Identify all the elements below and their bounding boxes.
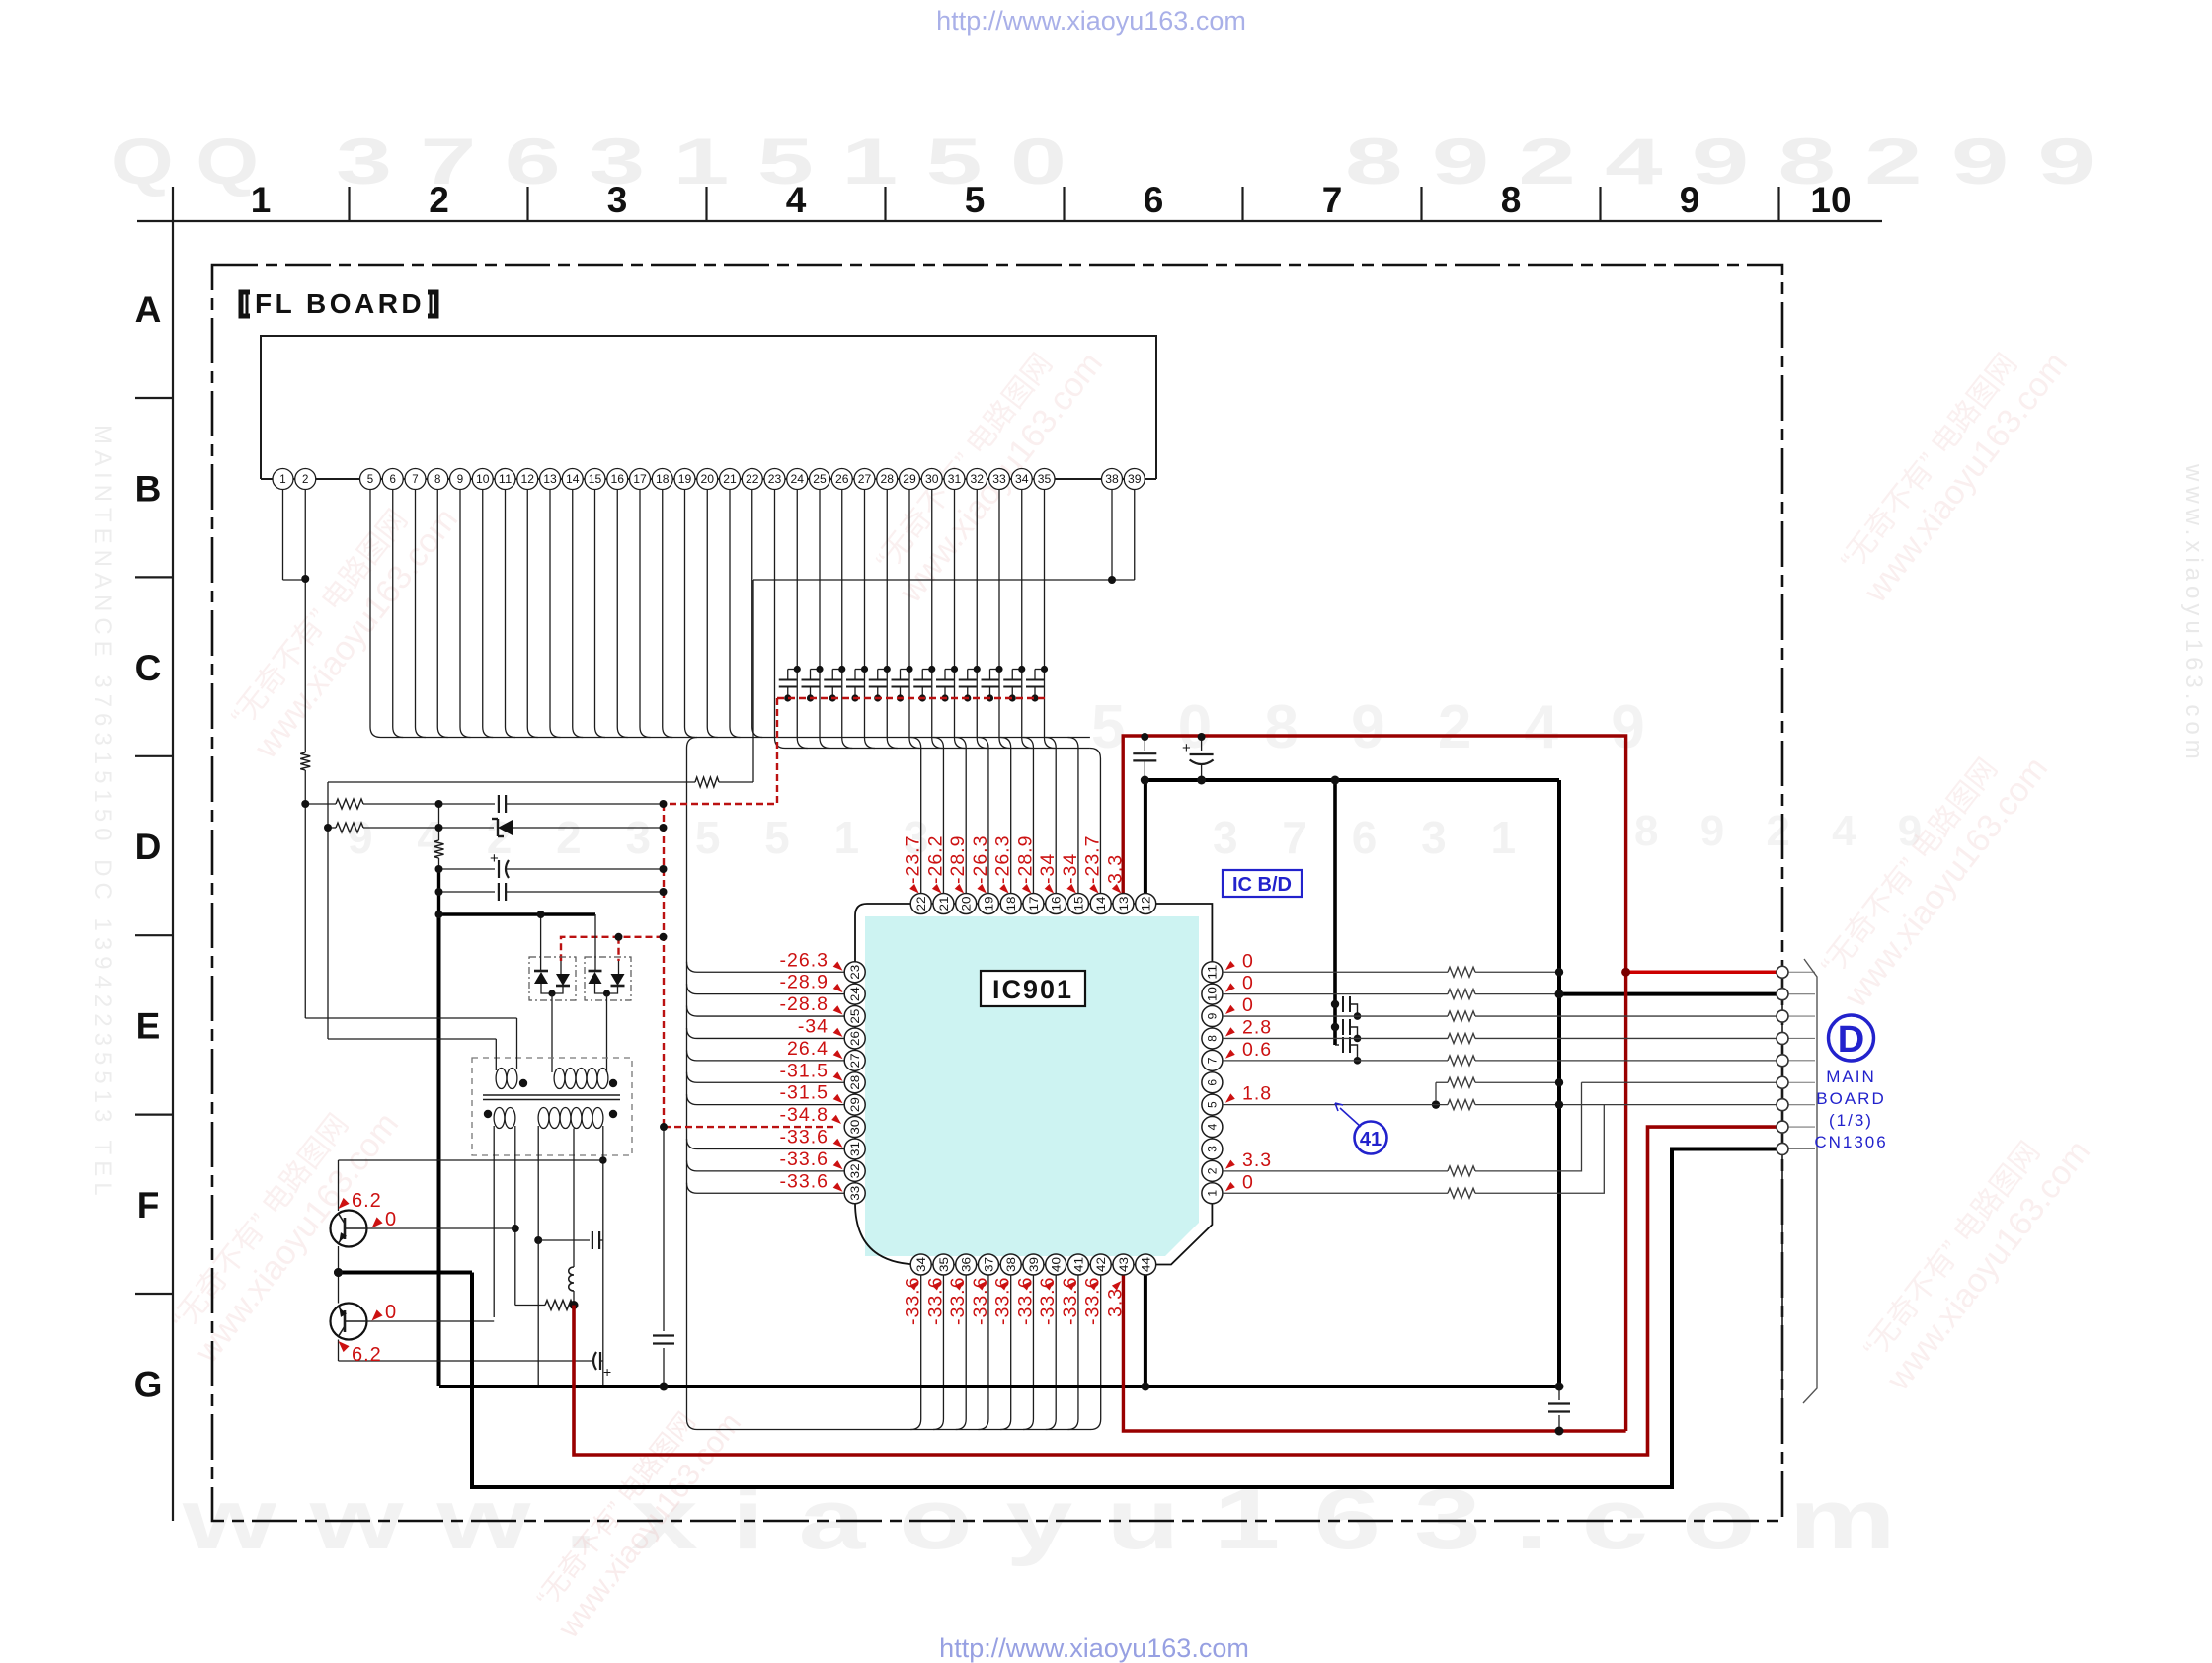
svg-text:7: 7 <box>412 474 418 486</box>
svg-text:3: 3 <box>607 180 628 220</box>
red dashed net <box>777 697 1049 699</box>
svg-text:+: + <box>1182 740 1191 756</box>
svg-text:A: A <box>135 289 162 330</box>
polar capacitor supply decoupling <box>1201 737 1203 751</box>
diode pair package D1 <box>529 957 576 1000</box>
svg-text:7: 7 <box>1322 180 1343 220</box>
svg-text:39: 39 <box>1027 1257 1041 1272</box>
column ruler <box>137 220 1882 222</box>
IC901 top pins 22-12 <box>1136 894 1156 914</box>
FL pin 23 <box>764 469 785 490</box>
capacitor 903 rail <box>439 891 496 893</box>
svg-text:D: D <box>1838 1019 1864 1061</box>
svg-text:22: 22 <box>746 474 759 486</box>
capacitor C2 segment filter <box>810 670 812 680</box>
svg-text:-26.2: -26.2 <box>924 835 946 884</box>
svg-text:38: 38 <box>1105 474 1119 486</box>
harness left trunk <box>687 738 698 1430</box>
svg-text:CN1306: CN1306 <box>1814 1133 1887 1151</box>
svg-text:1: 1 <box>1206 1190 1220 1197</box>
FL pin 31 <box>944 469 965 490</box>
svg-text:26.4: 26.4 <box>787 1038 829 1060</box>
svg-text:37: 37 <box>982 1257 995 1272</box>
svg-text:10: 10 <box>1206 987 1220 1001</box>
svg-text:1: 1 <box>279 474 285 486</box>
svg-text:-23.7: -23.7 <box>1082 835 1104 884</box>
capacitor C1 segment filter <box>787 670 789 680</box>
svg-text:35: 35 <box>937 1257 951 1272</box>
harness bus upper <box>381 737 1090 739</box>
svg-text:C: C <box>135 648 162 688</box>
capacitor C11 segment filter <box>1011 670 1013 680</box>
svg-text:-34: -34 <box>1060 853 1081 884</box>
callout 41 <box>1355 1122 1387 1154</box>
svg-text:6.2: 6.2 <box>352 1190 382 1212</box>
svg-text:9: 9 <box>1680 180 1700 220</box>
svg-text:0: 0 <box>385 1209 396 1230</box>
svg-text:MAINTENANCE 376315150 DC 13942: MAINTENANCE 376315150 DC 13942235513 TEL <box>89 425 116 1202</box>
svg-text:8: 8 <box>1501 180 1522 220</box>
svg-text:http://www.xiaoyu163.com: http://www.xiaoyu163.com <box>939 1633 1249 1663</box>
svg-text:5: 5 <box>965 180 986 220</box>
svg-text:29: 29 <box>903 474 916 486</box>
svg-text:38: 38 <box>1004 1257 1018 1272</box>
filament supply red routing <box>574 1127 1782 1455</box>
svg-text:-34.8: -34.8 <box>780 1104 829 1126</box>
FL pin 26 <box>831 469 852 490</box>
svg-text:33: 33 <box>848 1185 862 1200</box>
svg-text:21: 21 <box>723 474 737 486</box>
svg-text:-26.3: -26.3 <box>780 949 829 971</box>
FL pin 21 <box>720 469 741 490</box>
FL pin 17 <box>630 469 651 490</box>
resistor on pin2 rail <box>300 752 310 770</box>
FL pin 14 <box>562 469 583 490</box>
svg-text:35: 35 <box>1038 474 1052 486</box>
svg-text:4: 4 <box>786 180 807 220</box>
svg-text:15: 15 <box>589 474 602 486</box>
svg-text:FL BOARD: FL BOARD <box>255 288 425 319</box>
svg-text:41: 41 <box>1071 1257 1085 1272</box>
polar capacitor 880 rail <box>439 868 496 870</box>
svg-text:-28.9: -28.9 <box>1014 835 1036 884</box>
svg-text:17: 17 <box>1027 896 1041 911</box>
svg-text:20: 20 <box>960 896 974 911</box>
svg-text:34: 34 <box>1015 474 1029 486</box>
connector CN1306 <box>1781 961 1783 1410</box>
svg-text:IC B/D: IC B/D <box>1232 874 1292 896</box>
svg-text:Q Q: Q Q <box>111 124 259 198</box>
svg-text:26: 26 <box>848 1031 862 1046</box>
svg-text:+: + <box>490 850 499 867</box>
svg-text:8: 8 <box>434 474 440 486</box>
capacitor C8 segment filter <box>944 670 946 680</box>
svg-text:-28.9: -28.9 <box>947 835 969 884</box>
svg-text:32: 32 <box>848 1163 862 1178</box>
FL BOARD title <box>241 292 250 316</box>
svg-text:24: 24 <box>848 987 862 1001</box>
svg-text:3.3: 3.3 <box>1242 1149 1272 1171</box>
FL display module outline <box>261 336 1156 479</box>
svg-text:3.3: 3.3 <box>1104 1288 1126 1317</box>
svg-text:15: 15 <box>1071 896 1085 911</box>
capacitor on 814 rail <box>498 795 500 813</box>
svg-text:27: 27 <box>848 1053 862 1068</box>
zener diode <box>497 819 499 836</box>
svg-text:-26.3: -26.3 <box>992 835 1014 884</box>
svg-text:28: 28 <box>881 474 895 486</box>
wire + resistor filament feed <box>328 781 695 783</box>
FL pin 2 <box>295 469 316 490</box>
svg-text:8 9 2 4 9: 8 9 2 4 9 <box>1634 807 1936 855</box>
node D to MAIN BOARD <box>1829 1015 1874 1061</box>
wires to IC901 top pins <box>1067 738 1078 894</box>
svg-text:0: 0 <box>385 1302 396 1323</box>
svg-text:32: 32 <box>971 474 985 486</box>
svg-text:0.6: 0.6 <box>1242 1039 1272 1061</box>
svg-text:16: 16 <box>611 474 625 486</box>
svg-text:5: 5 <box>1206 1101 1220 1108</box>
transistor Q2 <box>331 1304 367 1340</box>
inductor L1 <box>569 1267 574 1291</box>
FL pin 19 <box>674 469 695 490</box>
svg-text:23: 23 <box>768 474 782 486</box>
FL pin 35 <box>1034 469 1055 490</box>
IC901 bottom pins 34-44 <box>910 1254 931 1275</box>
svg-text:-34: -34 <box>798 1015 829 1037</box>
FL pin 30 <box>921 469 942 490</box>
FL pin 13 <box>540 469 561 490</box>
svg-text:17: 17 <box>633 474 647 486</box>
svg-text:5: 5 <box>367 474 373 486</box>
FL pin 38 <box>1102 469 1123 490</box>
FL pin 1 <box>273 469 293 490</box>
capacitor C4 segment filter <box>854 670 856 680</box>
svg-text:-33.6: -33.6 <box>780 1148 829 1170</box>
svg-text:10: 10 <box>1810 180 1851 220</box>
svg-text:E: E <box>136 1006 161 1047</box>
wires FL pins 23-35 to harness <box>775 490 786 749</box>
wire FL pin 2 rail <box>304 490 306 753</box>
svg-text:18: 18 <box>656 474 670 486</box>
svg-text:http://www.xiaoyu163.com: http://www.xiaoyu163.com <box>936 6 1246 36</box>
svg-text:25: 25 <box>813 474 827 486</box>
svg-text:-33.6: -33.6 <box>780 1126 829 1148</box>
svg-text:23: 23 <box>848 964 862 979</box>
svg-text:40: 40 <box>1050 1257 1064 1272</box>
svg-text:0: 0 <box>1242 950 1254 972</box>
svg-text:IC901: IC901 <box>992 975 1073 1004</box>
svg-text:2: 2 <box>1206 1167 1220 1174</box>
FL pin 18 <box>652 469 672 490</box>
FL pin 9 <box>450 469 471 490</box>
svg-text:3 7 6 3 1: 3 7 6 3 1 <box>1213 812 1532 863</box>
FL pin 6 <box>382 469 403 490</box>
svg-text:24: 24 <box>791 474 805 486</box>
svg-text:26: 26 <box>835 474 849 486</box>
svg-text:6: 6 <box>390 474 396 486</box>
svg-text:12: 12 <box>1140 896 1153 911</box>
svg-text:29: 29 <box>848 1097 862 1112</box>
wire FL pin 1 <box>282 490 284 581</box>
svg-text:44: 44 <box>1140 1257 1153 1272</box>
svg-text:7: 7 <box>1206 1057 1220 1064</box>
svg-text:0: 0 <box>1242 1171 1254 1193</box>
svg-text:-31.5: -31.5 <box>780 1082 829 1104</box>
svg-text:4: 4 <box>1206 1123 1220 1130</box>
svg-text:-34: -34 <box>1037 853 1059 884</box>
FL pin 15 <box>585 469 605 490</box>
FL pin 29 <box>900 469 920 490</box>
svg-text:www.xiaoyu163.com: www.xiaoyu163.com <box>2180 463 2207 764</box>
svg-text:9: 9 <box>1206 1012 1220 1019</box>
IC901 right pins 11-1 <box>1202 1183 1223 1204</box>
FL pin 5 <box>360 469 381 490</box>
svg-text:+: + <box>603 1364 611 1380</box>
svg-text:3.3: 3.3 <box>1104 854 1126 884</box>
capacitor C12 segment filter <box>1034 670 1036 680</box>
svg-text:-28.9: -28.9 <box>780 972 829 993</box>
FL pin 28 <box>877 469 898 490</box>
svg-text:11: 11 <box>1206 964 1220 979</box>
svg-text:1.8: 1.8 <box>1242 1083 1272 1105</box>
resistor vertical divider <box>434 840 444 858</box>
svg-text:21: 21 <box>937 896 951 911</box>
IC B/D label <box>1223 870 1302 897</box>
svg-text:-33.6: -33.6 <box>780 1170 829 1192</box>
capacitor C5 segment filter <box>877 670 879 680</box>
svg-text:6: 6 <box>1206 1079 1220 1086</box>
svg-text:-28.8: -28.8 <box>780 993 829 1015</box>
FL pin 25 <box>810 469 830 490</box>
svg-text:5 0 8 9 2 4 9: 5 0 8 9 2 4 9 <box>1091 693 1663 761</box>
svg-text:6.2: 6.2 <box>352 1344 382 1366</box>
op-amp U1: IC901 body <box>865 916 1199 1256</box>
svg-text:22: 22 <box>914 896 928 911</box>
svg-text:14: 14 <box>566 474 580 486</box>
svg-text:41: 41 <box>1360 1129 1382 1150</box>
FL pin 8 <box>428 469 448 490</box>
transistor Q1 <box>331 1211 367 1247</box>
svg-text:6: 6 <box>1144 180 1164 220</box>
capacitor across secondary <box>538 1239 590 1241</box>
svg-text:0: 0 <box>1242 973 1254 994</box>
junction dots <box>301 575 309 583</box>
FL pin 32 <box>967 469 987 490</box>
svg-text:0: 0 <box>1242 994 1254 1016</box>
FL pin 24 <box>787 469 808 490</box>
resistor at inductor <box>545 1301 573 1310</box>
svg-text:G: G <box>134 1364 163 1404</box>
FL pin 12 <box>517 469 538 490</box>
svg-text:(1/3): (1/3) <box>1829 1111 1873 1130</box>
FL pin 39 <box>1124 469 1145 490</box>
svg-text:8: 8 <box>1206 1035 1220 1042</box>
wires FL pins 5-22 to harness <box>370 490 381 738</box>
svg-text:-23.7: -23.7 <box>903 835 924 884</box>
capacitor C3 segment filter <box>831 670 833 680</box>
capacitor ladder to pins 9/8/7 <box>1335 1003 1339 1005</box>
red arrow to pin 30 <box>831 1115 841 1124</box>
svg-text:28: 28 <box>848 1074 862 1089</box>
svg-text:2: 2 <box>302 474 308 486</box>
svg-text:10: 10 <box>476 474 490 486</box>
svg-text:30: 30 <box>848 1119 862 1134</box>
svg-text:D: D <box>135 827 162 867</box>
capacitor C7 segment filter <box>921 670 923 680</box>
harness bus bottom <box>697 1429 1091 1431</box>
3.3V red power routing <box>1123 736 1625 1431</box>
FL pin 27 <box>854 469 875 490</box>
resistor on zener rail <box>328 827 336 829</box>
svg-text:-31.5: -31.5 <box>780 1060 829 1081</box>
svg-text:31: 31 <box>848 1142 862 1156</box>
svg-text:34: 34 <box>914 1257 928 1272</box>
diode pair package D2 <box>585 957 631 1000</box>
FL pin 16 <box>607 469 628 490</box>
svg-text:11: 11 <box>499 474 513 486</box>
svg-text:9: 9 <box>457 474 463 486</box>
ground bus wiring <box>339 1271 472 1275</box>
svg-text:25: 25 <box>848 1008 862 1023</box>
svg-text:B: B <box>135 468 162 509</box>
svg-text:2.8: 2.8 <box>1242 1016 1272 1038</box>
svg-text:27: 27 <box>858 474 872 486</box>
transformer T901 <box>472 1058 632 1155</box>
FL pin 7 <box>405 469 426 490</box>
svg-text:20: 20 <box>701 474 715 486</box>
FL pin 34 <box>1011 469 1032 490</box>
svg-text:14: 14 <box>1094 896 1108 911</box>
svg-text:3: 3 <box>1206 1146 1220 1152</box>
svg-text:19: 19 <box>678 474 692 486</box>
resistor + wire node rail 814 <box>305 803 336 805</box>
svg-text:43: 43 <box>1117 1257 1131 1272</box>
svg-text:MAIN: MAIN <box>1826 1068 1876 1086</box>
svg-text:42: 42 <box>1094 1257 1108 1272</box>
FL pin 20 <box>697 469 718 490</box>
capacitor C6 segment filter <box>900 670 902 680</box>
svg-text:33: 33 <box>992 474 1006 486</box>
IC right-side resistor network <box>1223 971 1448 973</box>
svg-text:1: 1 <box>251 180 272 220</box>
svg-text:19: 19 <box>982 896 995 911</box>
capacitor supply decoupling <box>1144 737 1145 751</box>
wires from IC901 bottom pins <box>910 1275 921 1430</box>
capacitor C9 segment filter <box>967 670 969 680</box>
svg-text:16: 16 <box>1050 896 1064 911</box>
FL pin 10 <box>472 469 493 490</box>
svg-text:BOARD: BOARD <box>1816 1089 1885 1108</box>
svg-text:12: 12 <box>521 474 535 486</box>
svg-text:31: 31 <box>948 474 962 486</box>
FL pin 22 <box>742 469 762 490</box>
FL pin 33 <box>989 469 1010 490</box>
svg-text:13: 13 <box>1117 896 1131 911</box>
svg-text:-26.3: -26.3 <box>970 835 991 884</box>
wires to IC901 left pins <box>687 962 845 973</box>
svg-text:39: 39 <box>1128 474 1142 486</box>
svg-text:2: 2 <box>429 180 449 220</box>
svg-text:18: 18 <box>1004 896 1018 911</box>
harness bus lower <box>785 748 1090 750</box>
svg-text:8 9 2 4 9 8 2 9 9: 8 9 2 4 9 8 2 9 9 <box>1345 124 2095 198</box>
svg-text:F: F <box>137 1185 160 1226</box>
FL pin 11 <box>495 469 515 490</box>
svg-text:36: 36 <box>960 1257 974 1272</box>
IC901 left pins 23-33 <box>844 962 865 983</box>
svg-text:13: 13 <box>543 474 557 486</box>
capacitor C10 segment filter <box>989 670 991 680</box>
svg-text:30: 30 <box>925 474 939 486</box>
wire filament net to pins 38/39 <box>753 579 1135 581</box>
